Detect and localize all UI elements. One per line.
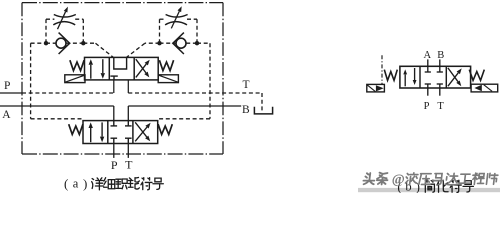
svg-text:T: T [437,101,444,112]
svg-text:P: P [111,158,118,172]
svg-text:a: a [73,176,79,190]
svg-text:(: ( [64,176,68,191]
svg-text:A: A [424,50,432,61]
svg-text:B: B [242,104,250,116]
svg-text:P: P [424,101,430,112]
svg-text:B: B [437,50,444,61]
svg-text:T: T [125,158,133,172]
svg-text:): ) [83,176,87,191]
svg-text:P: P [4,80,10,92]
svg-text:@: @ [392,173,405,188]
svg-text:A: A [2,109,11,121]
svg-text:T: T [242,79,249,91]
